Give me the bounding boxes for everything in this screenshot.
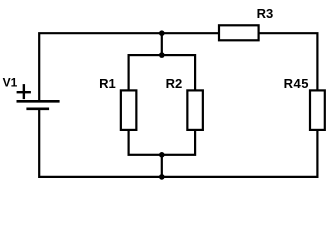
svg-text:R3: R3: [257, 6, 274, 21]
resistor R1 body: [121, 90, 137, 129]
wire: parallel section loop (R1 / R2 branches): [129, 55, 196, 155]
svg-text:V1: V1: [3, 76, 18, 90]
svg-text:R1: R1: [99, 76, 116, 91]
node junction dot at parallel bottom: [159, 152, 165, 158]
wire: left rail top + top rail + right rail top: [39, 33, 317, 100]
wire: right rail bottom + bottom rail + left rail bottom: [39, 109, 317, 177]
battery V1 short plate: [26, 108, 49, 111]
svg-text:R2: R2: [166, 76, 183, 91]
node junction dot on top rail: [159, 30, 165, 36]
svg-text:R45: R45: [284, 76, 310, 91]
resistor R2 body: [187, 90, 203, 129]
wire: drop from top rail junction to parallel section: [161, 33, 163, 56]
node junction dot on bottom rail: [159, 174, 165, 180]
node junction dot at parallel top: [159, 52, 165, 58]
battery V1 plus sign: [17, 91, 31, 93]
wire: drop from parallel section to bottom rail: [161, 154, 163, 177]
resistor R45 body: [310, 90, 325, 129]
battery V1 long plate: [17, 100, 60, 103]
resistor R3 body: [219, 25, 259, 40]
